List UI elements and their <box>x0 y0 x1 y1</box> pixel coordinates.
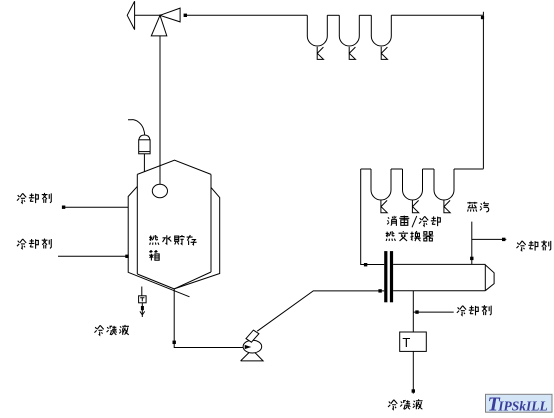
svg-text:T: T <box>402 335 410 350</box>
